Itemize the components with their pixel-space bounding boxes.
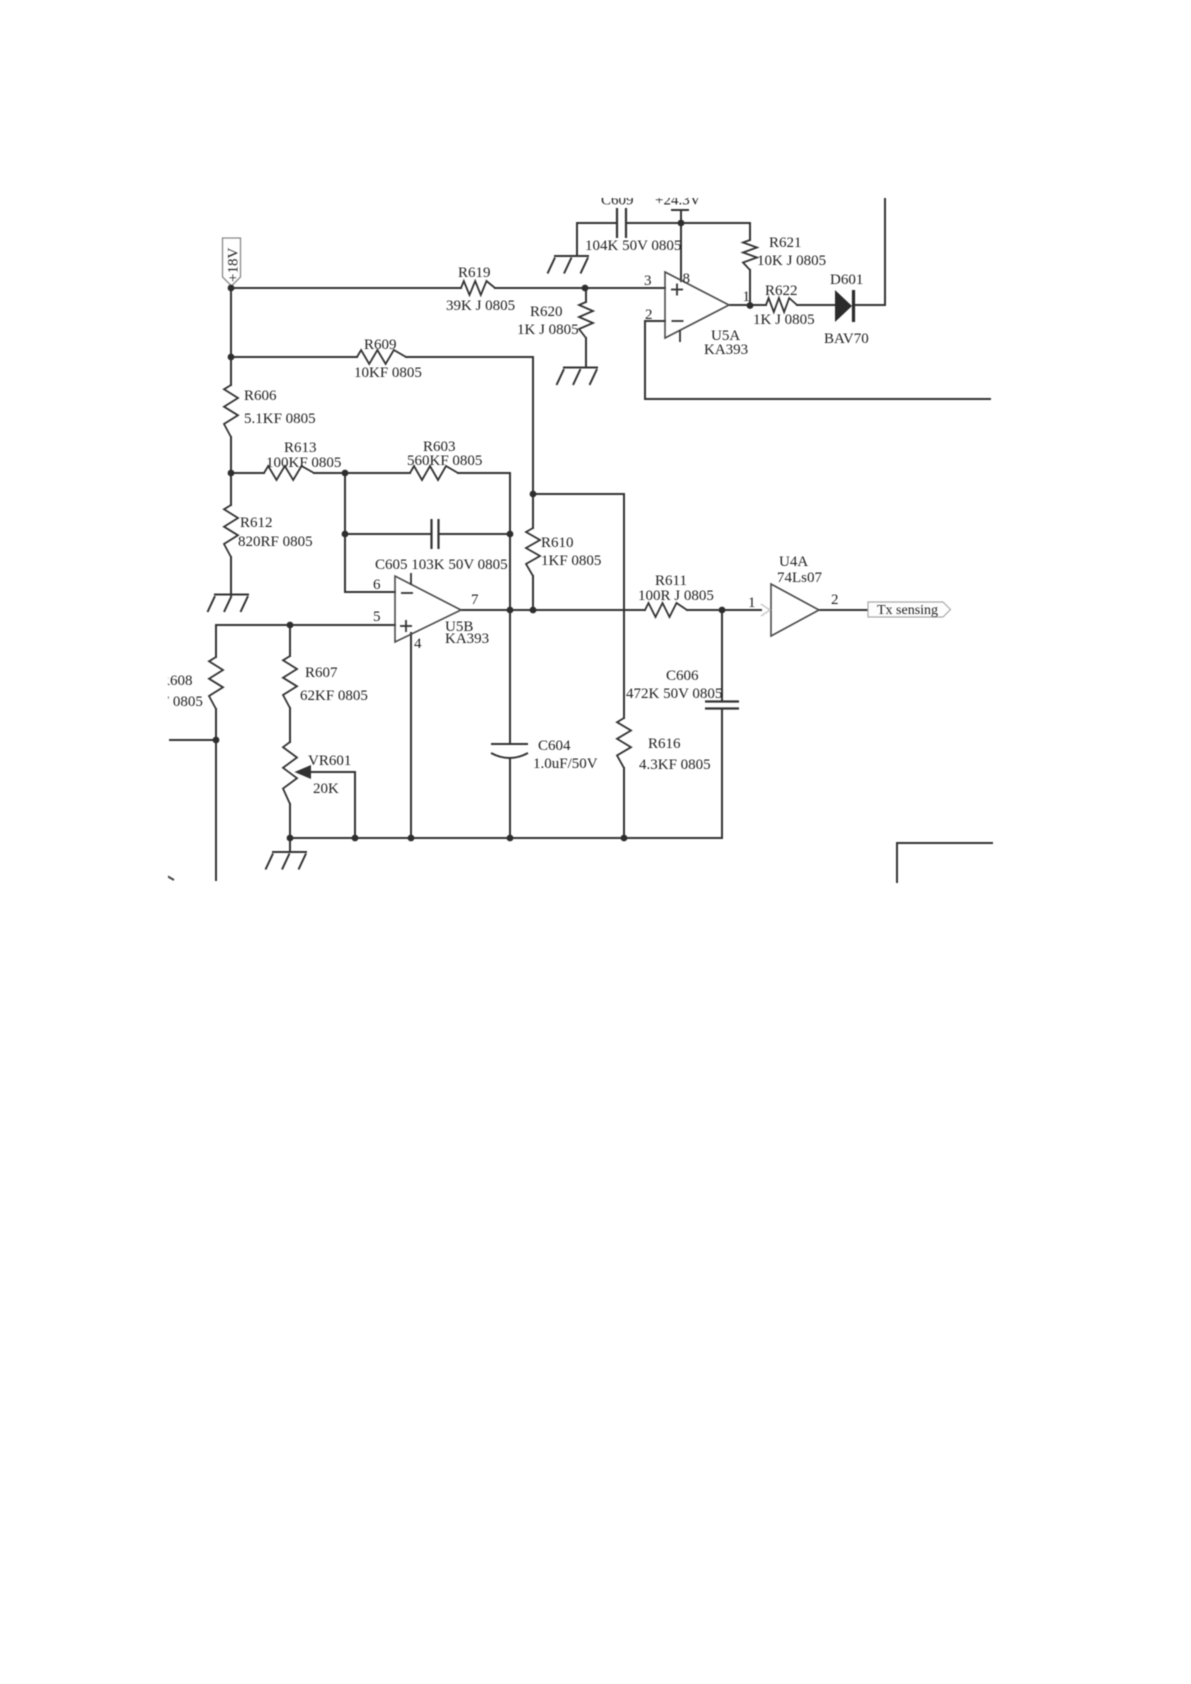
wire C604 top leg <box>509 610 511 744</box>
capacitor C604 polarized <box>491 744 528 758</box>
node C605 left <box>342 531 349 538</box>
wire R608 bottom leg down <box>215 709 217 880</box>
power flag +24.3V bar <box>671 209 689 211</box>
capacitor C609 <box>617 208 626 238</box>
svg-text:1: 1 <box>743 289 751 305</box>
crop mask left <box>0 630 168 890</box>
wire U5A output to R622 <box>729 304 766 306</box>
capacitor C605 <box>432 519 439 549</box>
wire rail node to R613 <box>231 472 264 474</box>
potentiometer VR601 wiper arrow <box>297 767 355 778</box>
node R610 bottom <box>530 607 537 614</box>
ground below C609 <box>548 256 590 274</box>
svg-text:R622: R622 <box>765 283 798 299</box>
svg-text:10KF 0805: 10KF 0805 <box>354 365 422 381</box>
svg-text:1: 1 <box>748 595 756 611</box>
svg-text:2: 2 <box>831 592 839 608</box>
node bottom rail R616 <box>621 835 628 842</box>
node R608 tap <box>213 737 220 744</box>
Tx sensing flag <box>868 602 951 617</box>
svg-text:3: 3 <box>644 273 652 289</box>
wire C606 bottom leg <box>721 709 723 838</box>
svg-text:8: 8 <box>683 271 691 287</box>
resistor R611 <box>645 603 687 617</box>
node output C604 branch <box>507 607 514 614</box>
svg-text:104K 50V 0805: 104K 50V 0805 <box>585 238 681 254</box>
wire VR601 wiper riser <box>354 772 356 838</box>
node +24.3V rail <box>678 220 685 227</box>
wire U5A feedback run to right <box>645 398 990 400</box>
node bottom rail VR601 <box>287 835 294 842</box>
wire R613 to node A <box>314 472 410 474</box>
wire U5B pin4 drop <box>410 633 412 838</box>
resistor R619 <box>461 281 495 295</box>
svg-text:R609: R609 <box>364 337 397 353</box>
node R609/R610 <box>530 491 537 498</box>
wire C605 left lead <box>345 533 431 535</box>
resistor R613 <box>264 466 314 480</box>
wire R620 bottom leg to ground <box>585 338 587 367</box>
resistor R610 <box>526 528 540 576</box>
svg-text:R620: R620 <box>530 304 563 320</box>
resistor R607 <box>283 656 297 708</box>
svg-text:472K 50V 0805: 472K 50V 0805 <box>626 686 722 702</box>
svg-text:2: 2 <box>645 307 653 323</box>
resistor R620 <box>579 302 593 338</box>
svg-text:R607: R607 <box>305 665 338 681</box>
node bottom rail pin4 <box>408 835 415 842</box>
wire node to R610 top <box>532 494 534 528</box>
cropped wire fragment bottom-left <box>167 876 174 880</box>
crop mask top <box>0 0 1191 198</box>
resistor R622 <box>766 298 797 312</box>
node pin5/R607 <box>287 622 294 629</box>
svg-text:74Ls07: 74Ls07 <box>777 570 823 586</box>
svg-text:7: 7 <box>471 592 479 608</box>
ground below VR601 <box>266 852 308 870</box>
svg-text:1K J 0805: 1K J 0805 <box>753 312 815 328</box>
wire U5A pin2 feedback drop <box>644 321 646 399</box>
wire U5B output to R611 <box>461 609 645 611</box>
wire +24.3V flag stub and U5A pin8 supply <box>680 210 682 281</box>
resistor R616 <box>617 718 631 768</box>
node junction dots <box>213 220 754 842</box>
svg-text:BAV70: BAV70 <box>824 331 869 347</box>
svg-text:560KF 0805: 560KF 0805 <box>407 453 482 469</box>
wire bottom-right cropped corner <box>897 843 992 882</box>
wire C605 right lead <box>439 533 510 535</box>
wire U4A output to Tx flag <box>819 609 868 611</box>
wire +18V rail upper <box>230 288 232 385</box>
resistor R609 <box>357 350 406 364</box>
potentiometer VR601 body <box>283 742 297 804</box>
wire R607 top leg <box>289 625 291 656</box>
svg-text:1K J 0805: 1K J 0805 <box>517 322 579 338</box>
svg-text:5.1KF 0805: 5.1KF 0805 <box>244 411 316 427</box>
wire R620 top leg <box>585 288 587 302</box>
wire R621 top leg <box>749 223 751 240</box>
svg-text:39K J 0805: 39K J 0805 <box>446 298 515 314</box>
resistor R621 <box>743 240 757 270</box>
wire U5B pin6 stub <box>345 591 395 593</box>
ground below R620 <box>557 368 599 386</box>
wire main rail node to R609 <box>231 356 357 358</box>
op-amp U5A <box>665 272 729 338</box>
svg-text:6: 6 <box>373 577 381 593</box>
svg-text:20K: 20K <box>313 781 339 797</box>
wire R603 to right corner <box>458 472 510 474</box>
ground below R612 <box>208 595 250 613</box>
svg-text:4.3KF 0805: 4.3KF 0805 <box>639 757 711 773</box>
wire node A drop to C605 and pin6 <box>344 473 346 592</box>
svg-text:62KF 0805: 62KF 0805 <box>300 688 368 704</box>
wire +24.3V top rail left of C609 <box>577 222 616 224</box>
wire U5A pin2 stub <box>645 320 665 322</box>
wire R621 bottom leg <box>749 270 751 305</box>
net stub chevron at U4A input <box>761 604 770 616</box>
node bottom rail wiper <box>352 835 359 842</box>
resistor R612 <box>224 505 238 557</box>
wire node across to R616 branch <box>533 493 624 495</box>
node U5A pin3 / R620 <box>582 285 589 292</box>
svg-text:100R J 0805: 100R J 0805 <box>638 588 714 604</box>
wire R610 bottom to output node <box>532 576 534 610</box>
wire U5B pin5 input line <box>216 624 395 626</box>
wire R609 to corner <box>406 356 533 358</box>
wire R611 to U4A pin1 <box>687 609 761 611</box>
node R613/R603 <box>342 470 349 477</box>
svg-text:R621: R621 <box>769 235 802 251</box>
svg-text:R611: R611 <box>655 573 687 589</box>
svg-text:10K J 0805: 10K J 0805 <box>757 253 826 269</box>
node rail R613 tap <box>228 470 235 477</box>
wire left stub to R608 node <box>170 739 216 741</box>
svg-text:R606: R606 <box>244 388 277 404</box>
svg-text:R613: R613 <box>284 440 317 456</box>
wire C609 left leg to ground <box>576 223 578 256</box>
wire bottom common rail <box>290 837 722 839</box>
wire R607 to VR601 <box>289 708 291 742</box>
wire left branch drop to R608 <box>215 625 217 657</box>
svg-text:1.0uF/50V: 1.0uF/50V <box>533 756 598 772</box>
node rail R609 tap <box>228 354 235 361</box>
wire rail between R606 and R612 <box>230 437 232 505</box>
node C605 right <box>507 531 514 538</box>
svg-text:5: 5 <box>373 609 381 625</box>
svg-text:820RF 0805: 820RF 0805 <box>238 534 313 550</box>
node +18V <box>228 285 235 292</box>
svg-text:Tx sensing: Tx sensing <box>877 603 938 618</box>
svg-text:KA393: KA393 <box>445 631 489 647</box>
power flag +18V outline <box>223 238 241 286</box>
wire R622 to D601 anode <box>797 304 835 306</box>
svg-text:U4A: U4A <box>779 554 808 570</box>
wire corner drop R609 to node <box>532 357 534 494</box>
svg-text:KA393: KA393 <box>704 342 748 358</box>
capacitor C606 <box>705 702 739 709</box>
wire D601 cathode to right riser <box>854 304 885 306</box>
wire right riser up from D601 <box>884 199 886 305</box>
wire R619 to U5A pin3 <box>495 287 665 289</box>
wire right feedback drop through C605 node to output <box>509 473 511 610</box>
wire C606 top leg <box>721 610 723 701</box>
wire C604 bottom leg <box>509 759 511 838</box>
wire +24.3V top rail right of C609 <box>627 222 750 224</box>
svg-text:C604: C604 <box>538 738 571 754</box>
resistor R606 <box>224 385 238 437</box>
wire +18V rail to R619 <box>231 287 461 289</box>
svg-text:C605 103K 50V 0805: C605 103K 50V 0805 <box>375 557 508 573</box>
svg-text:R616: R616 <box>648 736 681 752</box>
svg-text:VR601: VR601 <box>308 753 351 769</box>
svg-text:4: 4 <box>414 636 422 652</box>
node R611/C606 <box>719 607 726 614</box>
resistor R603 <box>410 466 458 480</box>
resistor R608 <box>209 657 223 709</box>
wire R616 bottom leg <box>623 768 625 838</box>
svg-text:R612: R612 <box>240 515 273 531</box>
svg-text:R619: R619 <box>458 265 491 281</box>
op-amp U5B <box>395 576 461 642</box>
wire rail below R612 to ground <box>230 557 232 595</box>
buffer U4A 74Ls07 <box>771 584 819 636</box>
wire VR601 bottom to ground <box>289 804 291 852</box>
svg-text:D601: D601 <box>830 272 863 288</box>
svg-text:1KF 0805: 1KF 0805 <box>541 553 601 569</box>
svg-text:100KF 0805: 100KF 0805 <box>266 455 341 471</box>
node bottom rail C604 <box>507 835 514 842</box>
svg-text:+18V: +18V <box>226 248 242 282</box>
wire R616 branch drop <box>623 494 625 718</box>
svg-text:R610: R610 <box>541 535 574 551</box>
svg-text:C606: C606 <box>666 668 699 684</box>
diode D601 BAV70 <box>835 290 854 322</box>
node U5A output <box>747 302 754 309</box>
